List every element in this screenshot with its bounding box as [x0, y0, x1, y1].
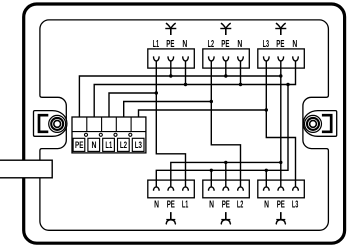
wire PE drop to bottom block L2	[225, 162, 227, 187]
top block L2 clamp terminal 1	[209, 56, 215, 61]
bottom block L1 clamp terminal 2 (PE)	[168, 187, 174, 191]
bottom block L2 clamp terminal 3 (L2)	[238, 187, 244, 191]
top block L3 clamp terminal 2 (PE)	[278, 56, 284, 61]
X1 label L1	[103, 138, 115, 151]
junction PE feed / PE riser	[279, 161, 282, 164]
wire L3 bus from X1	[139, 110, 267, 117]
top cable clamp symbol above block L2	[225, 29, 227, 35]
right mounting lug	[303, 111, 336, 137]
junction L2 bus	[210, 100, 213, 103]
output block bottom L2 body	[203, 180, 250, 198]
svg-text:L3: L3	[135, 140, 142, 151]
wire N bus from X1 to top blocks	[94, 61, 295, 118]
wire PE stub top block L2	[225, 61, 227, 77]
bottom block L3 clamp terminal 1 (N)	[264, 187, 270, 191]
svg-text:N: N	[92, 140, 97, 151]
junction N feed / bottom L2 N	[210, 169, 213, 172]
wire N drop to bottom block L2	[210, 170, 212, 187]
X1 label L3	[132, 138, 144, 151]
bottom block L3 clamp terminal 2 (PE)	[278, 187, 284, 191]
bottom block L2 clamp terminal 2 (PE)	[223, 187, 229, 191]
X1 test port 1	[84, 133, 87, 136]
junction PE bus / top L3 PE	[279, 74, 282, 77]
junction L1 bus	[155, 91, 158, 94]
junction L3 bus	[265, 108, 268, 111]
bottom block L3 clamp terminal 3 (L3)	[293, 187, 299, 191]
X1 cell divider 3	[115, 117, 117, 132]
svg-text:N: N	[154, 200, 159, 211]
output block bottom L1 body	[148, 180, 195, 198]
output block top L3 body	[258, 49, 305, 68]
svg-text:N: N	[182, 39, 187, 50]
wire PE bus from X1 to top blocks	[79, 76, 280, 117]
output block top L1 body	[148, 49, 195, 68]
wire L2 top block to bottom block	[211, 61, 240, 188]
top block L1 clamp terminal 3 (N)	[183, 56, 189, 61]
bottom block L1 clamp terminal 1 (N)	[154, 187, 160, 191]
output block top L2 body	[203, 49, 250, 68]
svg-text:L1: L1	[105, 140, 112, 151]
bottom cable clamp symbol below block L1	[170, 212, 172, 219]
top block L3 clamp terminal 3 (N)	[293, 56, 299, 61]
wire N distribution drop	[156, 85, 288, 188]
wire L2 bus from X1	[124, 102, 212, 118]
top block L1 clamp terminal 2 (PE)	[168, 56, 174, 61]
svg-text:PE: PE	[222, 200, 230, 211]
top block L3 clamp terminal 1	[264, 56, 270, 61]
X1 label N	[88, 138, 100, 151]
svg-text:PE: PE	[277, 200, 285, 211]
junction PE bus / top L2 PE	[224, 74, 227, 77]
X1 test port 2	[99, 133, 102, 136]
wire L1 bus from X1	[109, 93, 156, 117]
svg-text:L3: L3	[292, 200, 299, 211]
input terminal block X1 body	[72, 117, 146, 153]
wire N stub top block L2	[240, 61, 242, 85]
enclosure inner liner	[40, 20, 329, 230]
top block L2 clamp terminal 3 (N)	[238, 56, 244, 61]
svg-text:L1: L1	[153, 39, 160, 50]
junction PE feed / bottom L2 PE	[224, 161, 227, 164]
svg-text:PE: PE	[221, 39, 229, 50]
X1 cell divider 2	[101, 117, 103, 132]
X1 test port 3	[114, 133, 117, 136]
svg-text:N: N	[292, 39, 297, 50]
svg-text:PE: PE	[167, 200, 175, 211]
output block bottom L3 body	[258, 180, 305, 198]
wire L3 top block to bottom block	[266, 61, 295, 188]
incoming supply cable entry	[0, 160, 52, 178]
svg-text:PE: PE	[75, 140, 84, 151]
junction N bus / top L2 N	[239, 83, 242, 86]
svg-text:L2: L2	[120, 140, 127, 151]
bottom cable clamp symbol below block L3	[280, 212, 282, 219]
top cable clamp symbol above block L3	[280, 29, 282, 35]
top block L2 clamp terminal 2 (PE)	[223, 56, 229, 61]
svg-text:N: N	[264, 200, 269, 211]
svg-text:L3: L3	[263, 39, 270, 50]
X1 cell divider 1	[86, 117, 88, 132]
X1 test port 4	[129, 133, 132, 136]
top cable clamp symbol above block L1	[170, 29, 172, 35]
X1 label PE	[73, 138, 85, 151]
bottom block L1 clamp terminal 3 (L1)	[183, 187, 189, 191]
wire N drop to bottom block L3	[265, 170, 267, 187]
svg-text:PE: PE	[276, 39, 284, 50]
junction N bus / N drop	[286, 83, 289, 86]
top block L1 clamp terminal 1	[154, 56, 160, 61]
wire L1 top block to bottom block	[156, 61, 185, 188]
wire PE stub top block L1	[170, 61, 172, 77]
X1 label L2	[118, 138, 130, 151]
wire PE feed to bottom blocks	[171, 162, 281, 187]
left mounting lug	[34, 111, 67, 137]
svg-text:L2: L2	[208, 39, 215, 50]
svg-text:L2: L2	[237, 200, 244, 211]
junction PE bus / top L1 PE	[169, 74, 172, 77]
svg-text:L1: L1	[182, 200, 189, 211]
X1 cell divider 4	[130, 117, 132, 132]
svg-text:N: N	[209, 200, 214, 211]
wire N stub top block L1	[185, 61, 187, 85]
svg-text:PE: PE	[166, 39, 174, 50]
svg-text:N: N	[237, 39, 242, 50]
bottom block L2 clamp terminal 1 (N)	[209, 187, 215, 191]
bottom cable clamp symbol below block L2	[225, 212, 227, 219]
junction N bus / top L1 N	[184, 83, 187, 86]
wire PE top block L3 down to bottom block L3	[280, 61, 282, 188]
junction N feed / bottom L3 N	[265, 169, 268, 172]
